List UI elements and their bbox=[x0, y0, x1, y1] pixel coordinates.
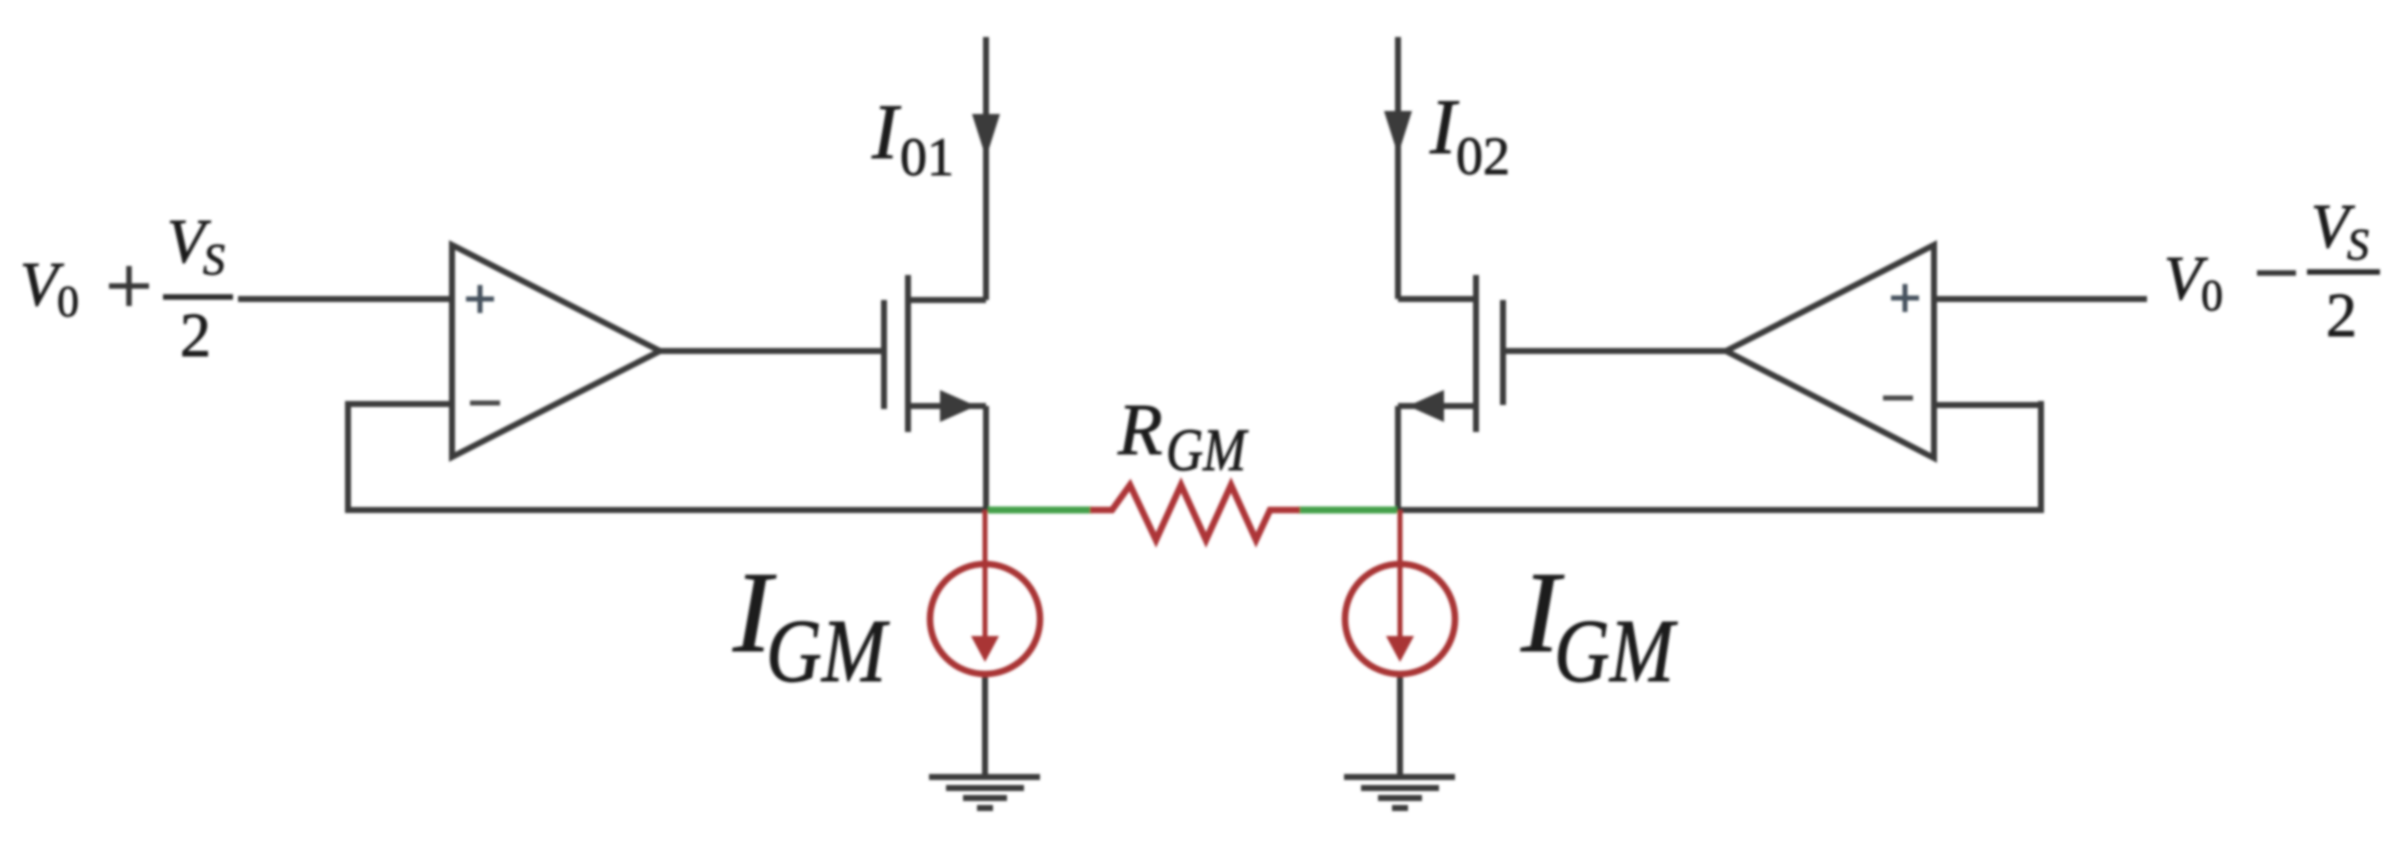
node B green wire (right) bbox=[1298, 507, 1397, 514]
transistor M2 source arrow bbox=[1408, 390, 1444, 422]
svg-text:02: 02 bbox=[1456, 126, 1510, 186]
label I01 bbox=[871, 88, 954, 187]
current source IGM2 (right) bbox=[1345, 564, 1455, 674]
label IGM (left) bbox=[732, 549, 890, 701]
wire: M1 source down to node A bbox=[983, 406, 989, 512]
op-amp U1 plus sign bbox=[466, 285, 494, 313]
wire: left feedback vertical bbox=[345, 401, 351, 510]
svg-text:S: S bbox=[2347, 220, 2369, 269]
wire: M2 drain vertical bbox=[1395, 37, 1401, 299]
wire: M1 source stub bbox=[908, 403, 986, 409]
wire: left op-amp + input bbox=[238, 296, 452, 302]
wire: left feedback minus input bbox=[345, 401, 452, 407]
node A green wire (left) bbox=[988, 507, 1092, 514]
op-amp U1 (left) bbox=[452, 245, 660, 457]
wire: node B to right feedback bottom horizontal bbox=[1398, 507, 2044, 513]
op-amp U1 minus sign bbox=[470, 401, 500, 406]
svg-text:2: 2 bbox=[180, 302, 211, 370]
svg-text:0: 0 bbox=[57, 277, 79, 326]
wire: M2 source stub bbox=[1398, 403, 1476, 409]
svg-text:GM: GM bbox=[1166, 417, 1249, 483]
wire: left feedback bottom horizontal to node A bbox=[345, 507, 986, 513]
wire: left current source to ground bbox=[982, 673, 988, 778]
ground (left) bbox=[929, 777, 1040, 808]
svg-text:01: 01 bbox=[900, 127, 954, 187]
label V0 - Vs/2 (right input) bbox=[2164, 193, 2380, 350]
svg-text:GM: GM bbox=[1554, 602, 1678, 701]
wire: M2 source down to node B bbox=[1395, 406, 1401, 512]
resistor RGM bbox=[1090, 485, 1300, 540]
label I02 bbox=[1429, 83, 1510, 186]
wire: M2 drain stub bbox=[1398, 296, 1476, 302]
transistor M1 (left NMOS) bbox=[884, 275, 908, 432]
current source IGM2 arrow bbox=[1386, 566, 1414, 662]
ground (right) bbox=[1344, 777, 1455, 808]
wire: right current source to ground bbox=[1397, 673, 1403, 778]
transistor M2 (right NMOS) bbox=[1476, 275, 1503, 432]
wire: M1 drain stub bbox=[908, 297, 986, 303]
current I01 arrow on M1 drain bbox=[972, 114, 1000, 158]
wire: M1 drain vertical bbox=[983, 37, 989, 300]
label V0 + Vs/2 (left input) bbox=[20, 208, 233, 370]
wire: right op-amp + input bbox=[1934, 296, 2147, 302]
svg-text:R: R bbox=[1117, 389, 1163, 470]
transistor M1 source arrow bbox=[940, 390, 976, 422]
svg-text:S: S bbox=[203, 235, 225, 284]
wire: right feedback minus input bbox=[1934, 402, 2044, 408]
label RGM bbox=[1117, 389, 1249, 483]
current source IGM1 (left) bbox=[930, 564, 1040, 674]
svg-text:2: 2 bbox=[2326, 282, 2357, 350]
op-amp U2 (right) bbox=[1726, 245, 1934, 458]
op-amp U2 plus sign bbox=[1891, 284, 1919, 312]
svg-text:0: 0 bbox=[2201, 271, 2223, 320]
current I02 arrow on M2 drain bbox=[1384, 111, 1412, 155]
op-amp U2 minus sign bbox=[1883, 396, 1913, 401]
wire: node A red drop bbox=[983, 510, 988, 568]
wire: left op-amp output to M1 gate bbox=[656, 348, 884, 354]
wire: node B red drop bbox=[1398, 510, 1403, 568]
wire: right feedback vertical bbox=[2038, 401, 2044, 510]
current source IGM1 arrow bbox=[971, 566, 999, 662]
svg-text:I: I bbox=[871, 88, 902, 175]
svg-text:GM: GM bbox=[766, 602, 890, 701]
wire: M2 gate to right op-amp output bbox=[1503, 348, 1725, 354]
label IGM (right) bbox=[1520, 549, 1678, 701]
